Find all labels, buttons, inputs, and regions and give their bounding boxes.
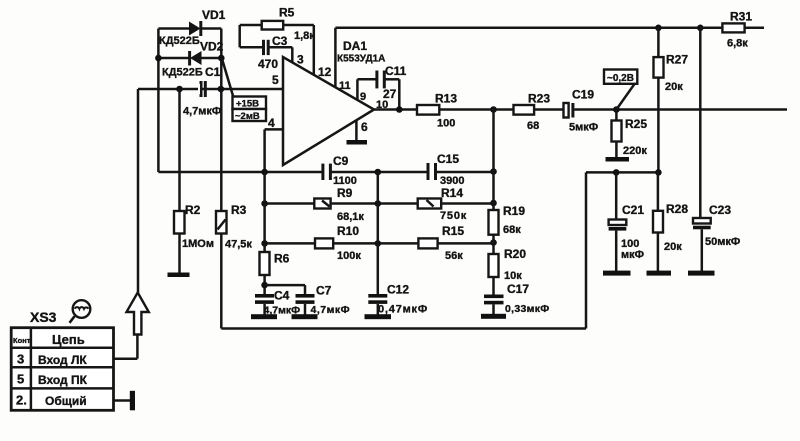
ground C4 [251,314,277,319]
svg-text:R5: R5 [279,6,295,20]
resistor R9 [314,186,364,223]
svg-text:R13: R13 [435,92,457,106]
svg-text:R6: R6 [274,252,290,266]
resistor R6 [260,252,290,295]
svg-text:6,8к: 6,8к [727,38,748,50]
svg-text:750к: 750к [440,210,467,222]
svg-text:2.: 2. [16,393,27,408]
resistor R3 [216,203,252,251]
svg-text:~0,2В: ~0,2В [607,73,634,84]
capacitor C7 [265,284,350,317]
capacitor C4 [255,289,300,317]
svg-text:VD1: VD1 [202,8,226,22]
svg-text:Конт: Конт [13,336,31,345]
node output C11 [396,106,403,113]
resistor R14 [418,186,467,222]
capacitor C23 [693,203,740,271]
svg-text:68,1к: 68,1к [337,211,364,223]
resistor R25 [612,110,648,159]
svg-text:C3: C3 [272,34,288,48]
resistor R19 [489,204,526,236]
node bus right [490,168,497,175]
svg-text:R10: R10 [337,224,359,238]
node bus pin4 [261,169,268,176]
svg-text:R28: R28 [666,202,688,216]
svg-text:VD2: VD2 [200,40,224,54]
svg-text:C4: C4 [274,289,290,303]
wire right vertical x700.3 [699,28,702,218]
svg-text:R14: R14 [441,186,463,200]
svg-text:Общий: Общий [45,394,87,408]
svg-text:C17: C17 [507,282,529,296]
svg-text:C7: C7 [316,284,332,298]
svg-text:C21: C21 [622,203,644,217]
svg-text:1МОм: 1МОм [182,238,214,250]
svg-text:R19: R19 [503,204,525,218]
node R10 row left [261,240,268,247]
resistor R10 [315,224,361,262]
svg-text:~2мВ: ~2мВ [235,111,260,122]
svg-text:9: 9 [360,91,366,103]
resistor R27 [654,28,689,173]
wire pin6 ground [355,120,358,141]
ground C7 [292,314,318,319]
node R9 row right [490,200,497,207]
resistor R15 [418,224,464,262]
resistor R28 [653,172,688,271]
wire diode loop right vertical [220,29,223,90]
svg-text:R23: R23 [528,92,550,106]
node C21 top [613,169,620,176]
svg-text:Вход ПК: Вход ПК [38,373,88,387]
chassis pin2 [130,391,135,411]
svg-text:27: 27 [383,87,397,101]
svg-text:КД522Б: КД522Б [162,67,203,79]
svg-text:C12: C12 [387,283,409,297]
resistor R5 [240,6,316,43]
svg-text:R15: R15 [442,224,464,238]
svg-text:5мкФ: 5мкФ [569,122,598,134]
svg-text:Цепь: Цепь [52,332,85,347]
svg-text:68: 68 [527,120,539,132]
svg-text:+15В: +15В [236,99,259,110]
svg-text:C9: C9 [333,154,349,168]
svg-text:20к: 20к [665,81,683,93]
svg-text:12: 12 [318,65,332,79]
svg-text:68к: 68к [503,224,521,236]
capacitor C21 [609,172,645,271]
node bus mid [375,169,382,176]
svg-text:50мкФ: 50мкФ [705,236,740,248]
ground C21 [603,271,631,276]
wire R9 row y203.5 [265,202,494,205]
svg-text:C23: C23 [709,203,731,217]
svg-text:56к: 56к [445,250,463,262]
svg-text:R25: R25 [625,117,647,131]
node R9 row left [261,200,268,207]
svg-text:R2: R2 [185,203,201,217]
node VD right junction [218,55,225,62]
node C4 C7 [261,282,268,289]
wire pin12 vertical [314,25,332,79]
wire output y109.5 [374,108,787,111]
wire R3 branch vertical [220,89,223,329]
ground R2 [168,273,190,278]
ground C12 [365,314,392,319]
svg-text:1,8к: 1,8к [294,30,315,42]
svg-text:R9: R9 [337,186,353,200]
node output R13-R19 [490,106,497,113]
capacitor C17 [484,282,550,315]
svg-text:47,5к: 47,5к [225,239,252,251]
wire right chain vertical x493.5 [492,110,495,295]
svg-text:100к: 100к [337,250,361,262]
svg-text:3: 3 [17,352,24,367]
diode VD1 [158,8,225,47]
svg-text:ХS3: ХS3 [30,309,57,325]
node R10 row right [490,239,497,246]
resistor R13 [417,92,457,130]
capacitor C1 [183,65,221,118]
wire mid vertical x264.6 [263,172,266,252]
node rail R31 [697,25,704,32]
resistor R23 [514,92,551,133]
capacitor C19 [564,88,599,134]
svg-text:4: 4 [268,116,275,130]
svg-text:К553УД1А: К553УД1А [337,54,385,65]
arrow input direction [127,293,149,335]
capacitor C11 [357,64,406,110]
connector socket icon [70,300,91,323]
svg-text:100: 100 [437,118,455,130]
svg-text:R31: R31 [730,10,752,24]
wire top rail y27.8 [335,27,700,30]
resistor R31 [700,10,764,50]
node main-R2 [176,86,183,93]
svg-text:6: 6 [361,120,368,134]
wire pin3 vertical [292,47,304,66]
capacitor C12 [368,283,428,316]
svg-text:DA1: DA1 [343,39,367,53]
svg-text:мкФ: мкФ [621,249,644,261]
svg-text:20к: 20к [664,241,682,253]
svg-text:220к: 220к [623,145,647,157]
node main-C1 right [218,86,225,93]
connector XS3 table [11,309,113,410]
wire mid vertical x377.8 [377,172,380,294]
node R9 row mid [375,200,382,207]
wire feedback bus y172 [158,171,493,174]
wire input vertical x138 [137,89,140,293]
capacitor C9 [323,154,357,187]
ground pin6 [347,140,368,145]
ground R25 [606,157,630,162]
wire pin4 [265,129,283,172]
svg-text:R3: R3 [231,203,247,217]
svg-text:0,33мкФ: 0,33мкФ [505,303,550,315]
svg-text:C11: C11 [385,64,407,78]
svg-text:10к: 10к [504,270,522,282]
ground C17 [481,314,506,319]
svg-text:11: 11 [339,80,351,92]
resistor R20 [489,247,527,282]
wire main input y89 [138,88,283,91]
diode VD2 [158,40,223,79]
wire diode loop left vertical [157,29,160,173]
wire R10 row y243.4 [265,242,494,245]
wire XS3 pin2 chassis [114,399,131,402]
wire bias vertical x586 [585,172,588,328]
wire C21 R28 row y172.4 [586,171,658,174]
node R28 top [655,169,662,176]
label measurement box -0.2V [604,70,637,110]
capacitor C15 [428,152,464,187]
node output R25 [613,106,620,113]
svg-text:C15: C15 [437,152,459,166]
wire XS3 pin3 [114,335,138,359]
svg-text:470: 470 [258,57,278,71]
wire bottom bus y328.5 [221,327,586,330]
svg-text:R27: R27 [666,53,688,67]
svg-text:R20: R20 [504,247,526,261]
svg-text:5: 5 [17,372,24,387]
op-amp DA1 [268,39,388,165]
node R10 row mid [375,240,382,247]
svg-text:4,7мкФ: 4,7мкФ [183,106,221,118]
node VD left junction [155,55,162,62]
svg-text:Вход ЛК: Вход ЛК [38,353,87,367]
capacitor C3 [240,25,293,71]
node rail R27 [655,25,662,32]
resistor R2 [174,89,214,273]
svg-text:КД522Б: КД522Б [159,35,200,47]
svg-text:C1: C1 [205,65,221,79]
ground R28 [647,271,672,276]
wire pin11 vertical [334,28,337,87]
svg-text:5: 5 [272,73,279,87]
svg-text:0,47мкФ: 0,47мкФ [378,304,428,316]
ground C23 [688,271,715,276]
label measurement box +15V [222,59,266,123]
svg-text:C19: C19 [572,88,594,102]
